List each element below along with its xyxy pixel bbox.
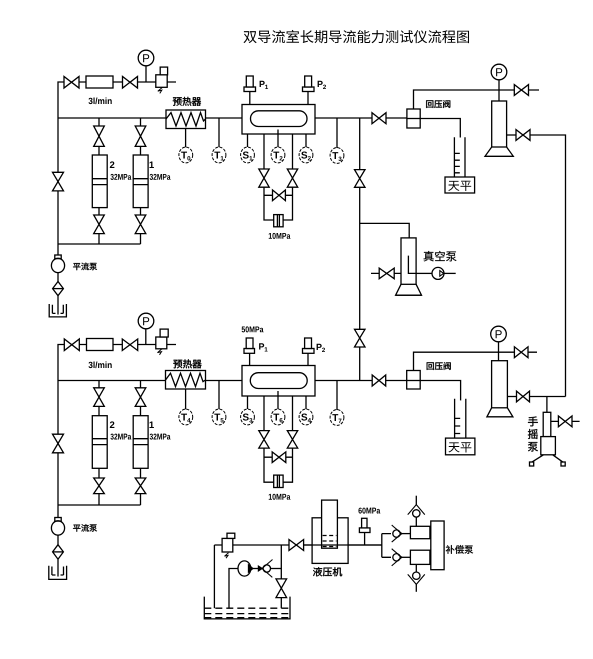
pressure gauge P (lower-left) xyxy=(138,313,154,329)
sensor T3 stem xyxy=(336,118,338,148)
preheater 预热器 (lower) xyxy=(166,371,206,390)
filter F2 xyxy=(87,339,114,351)
label P1 (lower vessel) xyxy=(259,343,264,349)
label 天平 (top) xyxy=(448,181,459,191)
hydraulic booster 液压机 xyxy=(312,518,348,564)
discharge check valve (bottom) xyxy=(415,564,417,572)
filter F1 xyxy=(86,76,113,88)
pulse damper diamond (lower) xyxy=(57,535,59,545)
gear pump ellipse xyxy=(229,569,238,609)
sensor bubble S1 xyxy=(241,147,255,163)
regulator R1 xyxy=(156,75,167,88)
sensor T1 stem xyxy=(218,118,220,147)
compensation pump lower cylinder xyxy=(410,550,430,564)
top-right gas line xyxy=(414,90,540,109)
vacuum line branch xyxy=(360,223,410,238)
measuring cylinder (top) xyxy=(454,137,465,177)
gauge letter P top-right xyxy=(496,68,502,76)
suction check valve (top) xyxy=(415,496,417,505)
plunger pump (lower, 平流泵) xyxy=(57,505,59,518)
compensation pump 补偿泵 upper cylinder xyxy=(410,526,430,538)
preheater sensor stem (lower) xyxy=(185,389,187,409)
accumulator cylinder 1 lower xyxy=(133,416,148,469)
vacuum pump circle xyxy=(416,272,432,274)
label 预热器 (lower) xyxy=(173,360,182,368)
gauge stem cross (lower-right) xyxy=(498,342,500,361)
label cylinder 2 (top) xyxy=(110,161,115,168)
branch drop x=140.5 xyxy=(140,118,142,244)
pressure gauge P (top-left) xyxy=(138,50,154,66)
balance box 天平 (lower) xyxy=(446,438,475,455)
label 50MPa xyxy=(242,326,245,332)
pressure gauge P stem xyxy=(145,66,147,82)
distribution tee xyxy=(381,534,383,558)
mid vertical connector x=360 xyxy=(359,118,361,381)
outlet valve (lower, horizontal) xyxy=(372,375,386,386)
gauge letter P lower-left xyxy=(143,317,149,325)
accumulator cylinder 2 lower xyxy=(92,416,107,469)
feed valve (horizontal) xyxy=(289,540,304,551)
branch drop x=99 xyxy=(98,118,100,244)
separator base (lower-right) xyxy=(487,408,513,417)
suction line 1 xyxy=(213,545,215,608)
label 32MPa (lower right cyl) xyxy=(150,434,153,440)
valve V-left-1 (vertical) xyxy=(53,172,64,191)
label cylinder 1 (lower) xyxy=(149,421,153,428)
sensor bubble letters: top row xyxy=(181,152,187,159)
label 32MPa (top left cyl) xyxy=(110,174,113,180)
label 3l/min (lower) xyxy=(88,362,92,368)
preheater sensor stem xyxy=(185,129,187,148)
pressure gauge P (lower-right) xyxy=(491,326,507,342)
check valve down-branch xyxy=(392,549,402,566)
bypass stubs xyxy=(264,194,293,196)
sensor bubble letters: lower row xyxy=(181,414,187,421)
vacuum valve stub xyxy=(371,272,401,274)
preheater 预热器 (top) xyxy=(166,110,206,129)
label 真空泵 xyxy=(424,251,434,261)
main line (top) xyxy=(58,118,460,137)
sensor T7 stem xyxy=(336,381,338,411)
line to right trunk xyxy=(530,396,566,398)
label 预热器 (top) xyxy=(173,97,182,105)
drain valve left (vertical) xyxy=(259,169,269,187)
valve V-left-2 (vertical) xyxy=(53,434,64,453)
label 平流泵 (top) xyxy=(73,263,80,270)
separator outlet valve (top-right) xyxy=(507,134,516,136)
accumulator cylinder 1 (32MPa) xyxy=(133,155,148,208)
balance drop line (top) xyxy=(459,136,461,139)
differential pressure sensor 10MPa xyxy=(274,215,283,227)
label 天平 (lower) xyxy=(449,442,460,452)
sensor bubble T7 xyxy=(330,410,344,426)
label 回压阀 (top) xyxy=(426,100,433,107)
gauge letter P top-left xyxy=(143,54,149,62)
waste beaker (lower) xyxy=(57,559,59,576)
pressure gauge P (top-right) xyxy=(491,64,507,80)
check valve up-branch xyxy=(392,525,402,542)
separator outlet valve (lower-right) xyxy=(507,396,516,398)
label 10MPa (lower) xyxy=(269,494,272,500)
pressure transducer P1 (top vessel) xyxy=(244,87,256,92)
pressure transducer P1 (lower vessel) xyxy=(244,349,255,354)
valve V5a (vertical) xyxy=(94,388,105,407)
differential pressure sensor 10MPa (lower) xyxy=(274,475,283,487)
balance drop (lower) xyxy=(460,399,462,401)
cell bottom sensor stems (lower) xyxy=(248,391,307,409)
valve V3a (vertical) xyxy=(94,215,105,234)
cell top sensor stems P1 P2 xyxy=(250,92,308,105)
bypass valve (horizontal) xyxy=(273,190,286,201)
check valve (bottom-left) xyxy=(253,568,262,570)
label 手摇泵 (vertical) xyxy=(528,416,538,426)
valve V2a (vertical) xyxy=(94,126,105,146)
label P2 (top vessel) xyxy=(318,81,323,87)
mid valve upper (vertical) xyxy=(355,170,366,188)
valve V6a (vertical) xyxy=(94,478,105,494)
compensation pump body xyxy=(431,521,444,570)
cell drain lines (lower) xyxy=(264,396,293,482)
vent valve (lower-right) xyxy=(514,347,528,358)
sensor bubble T0 xyxy=(179,147,193,163)
branch drop x=140.5 (lower) xyxy=(140,381,142,506)
waste beaker (top) xyxy=(57,296,59,315)
valve V5b (vertical) xyxy=(135,388,146,407)
tank return valve (vertical) xyxy=(276,579,287,598)
separator cylinder (top-right) xyxy=(492,101,507,147)
label P1 (top vessel) xyxy=(260,81,265,87)
left vertical line (lower loop) xyxy=(57,381,59,506)
hand pump drop xyxy=(546,397,548,413)
mid valve lower (vertical) xyxy=(355,329,366,347)
label 回压阀 (lower) xyxy=(427,362,434,369)
gauge stem cross xyxy=(498,80,500,101)
back-pressure valve box 回压阀 (lower) xyxy=(407,371,421,390)
right trunk line down xyxy=(530,135,566,397)
drain valve left lower (vertical) xyxy=(259,431,269,449)
branch drop x=99 (lower) xyxy=(98,381,100,506)
bottom connector (top loop) xyxy=(58,243,141,245)
vacuum trap base xyxy=(396,284,422,295)
pressure transducer P2 (lower vessel) xyxy=(303,349,315,354)
label 10MPa (top) xyxy=(269,233,272,239)
valve V1b xyxy=(123,77,138,89)
drain valve right (vertical) xyxy=(287,169,297,187)
vacuum valve (horizontal) xyxy=(379,268,394,279)
sensor bubble T5 xyxy=(212,409,226,425)
bottom connector (lower loop) xyxy=(58,504,141,506)
separator base (top-right) xyxy=(485,147,513,156)
gauge letter P lower-right xyxy=(496,330,502,338)
accumulator cylinder 2 (32MPa) xyxy=(92,155,107,208)
regulator R3 xyxy=(222,538,233,552)
plunger pump (top, 平流泵) xyxy=(57,244,59,255)
sensor T5 stem xyxy=(218,381,220,410)
bottom feed line xyxy=(214,544,381,546)
sensor bubble T1 xyxy=(212,147,226,163)
separator cylinder (lower-right) xyxy=(492,361,508,408)
pulse damper diamond (top) xyxy=(57,273,59,282)
pressure transducer 60MPa xyxy=(359,528,370,533)
sensor bubble T6 xyxy=(271,409,285,425)
pressure transducer P2 (top vessel) xyxy=(303,87,315,92)
valve V3b (vertical) xyxy=(135,215,146,234)
conductivity cell (top vessel) xyxy=(242,105,315,135)
sensor bubble T4 xyxy=(179,409,193,425)
return vertical with valve xyxy=(280,545,282,608)
back-pressure valve box 回压阀 (top) xyxy=(407,109,420,128)
outlet valve (top, horizontal) xyxy=(372,113,386,124)
label 60MPa xyxy=(358,508,361,514)
conductivity cell (lower vessel) xyxy=(242,366,315,397)
hand pump 手摇泵 xyxy=(543,412,551,436)
cell bottom sensor stems xyxy=(248,130,307,148)
lower-right gas line xyxy=(414,352,538,370)
label 3l/min (top) xyxy=(88,98,92,104)
regulator R2 xyxy=(156,337,167,349)
cell drain lines xyxy=(264,134,293,220)
gauge stem (lower-left) xyxy=(145,329,147,345)
sensor bubble S3 xyxy=(241,409,255,425)
vacuum trap cylinder xyxy=(401,238,416,284)
vent valve (top-right) xyxy=(514,85,528,96)
hand pump valve stub xyxy=(551,420,580,422)
valve V4a xyxy=(64,339,79,351)
top feed branch pipe xyxy=(58,82,176,118)
valve V6b (vertical) xyxy=(135,478,146,494)
bypass stubs (lower) xyxy=(264,456,293,458)
sensor bubble S2 xyxy=(299,147,313,163)
main line (lower) xyxy=(58,381,461,401)
label 32MPa (top right cyl) xyxy=(150,174,153,180)
label 平流泵 (lower) xyxy=(73,525,80,532)
lower feed branch pipe xyxy=(58,345,176,381)
balance box 天平 (top) xyxy=(445,177,475,193)
bypass valve lower (horizontal) xyxy=(272,452,286,463)
drain valve right lower (vertical) xyxy=(287,431,297,449)
sensor bubble T2 xyxy=(271,147,285,163)
label cylinder 2 (lower) xyxy=(110,421,115,428)
left vertical line (top loop) xyxy=(57,118,59,244)
tank liquid (dashed) xyxy=(204,607,290,609)
cell top sensor stems (lower) xyxy=(250,353,308,365)
oil tank xyxy=(204,597,290,619)
label P2 (lower vessel) xyxy=(317,344,322,350)
label 补偿泵 xyxy=(446,545,455,554)
measuring cylinder (lower) xyxy=(455,399,466,438)
valve V2b (vertical) xyxy=(135,126,146,146)
valve V1a xyxy=(64,77,79,89)
label cylinder 1 (top) xyxy=(149,161,153,168)
sensor bubble T3 xyxy=(330,148,344,164)
title: 双导流室长期导流能力测试仪流程图 xyxy=(243,31,256,43)
sensor bubble S4 xyxy=(299,409,313,425)
label 32MPa (lower left cyl) xyxy=(110,434,113,440)
valve V4b xyxy=(122,339,137,351)
label 液压机 xyxy=(313,567,322,576)
